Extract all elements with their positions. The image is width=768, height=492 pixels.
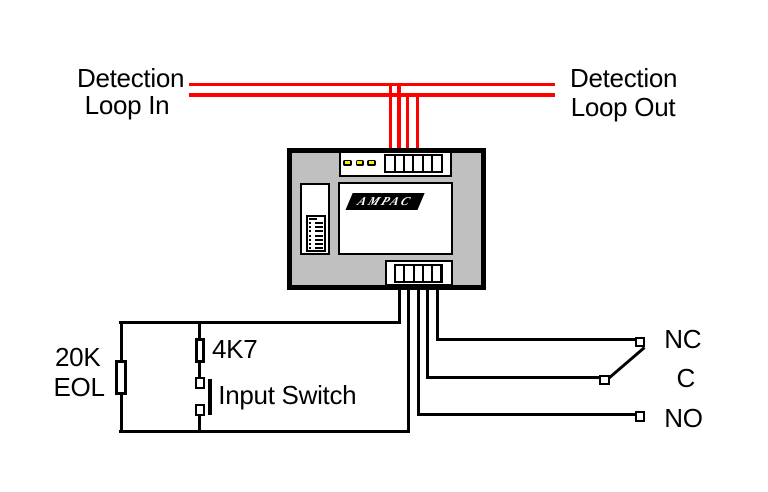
wire loop vertical 2 (red): [397, 83, 400, 148]
label EOL: [54, 374, 105, 400]
relay/DIP side panel: [300, 183, 330, 255]
wire A vertical (terminal 1 down): [398, 290, 401, 324]
wire loop horizontal bottom (red): [189, 93, 555, 96]
terminals panel (bottom): [385, 260, 453, 287]
wire loop horizontal top (red): [189, 83, 555, 86]
wire below switch: [198, 416, 201, 433]
resistor 4K7: [195, 338, 206, 363]
terminal block bottom (5 way): [394, 264, 443, 284]
wire E vertical (terminal 5 down): [436, 290, 439, 341]
wire between 4K7 and switch: [198, 363, 201, 377]
label Input Switch: [218, 382, 356, 408]
wire loop vertical 4 (red): [416, 93, 419, 148]
main label panel: [338, 182, 453, 256]
wire C horizontal (to NO): [417, 413, 635, 416]
input switch terminal top: [195, 377, 206, 389]
LED 2: [356, 160, 365, 166]
AMPAC logo parallelogram: [345, 193, 424, 210]
label 20K: [55, 344, 100, 370]
label Detection Loop In line1: [77, 65, 182, 91]
label NO: [664, 405, 702, 431]
wire left circuit vertical lower: [120, 395, 123, 433]
DIP switch block: [306, 215, 326, 252]
label C: [677, 365, 695, 391]
label Detection Loop Out line1: [570, 65, 674, 91]
wire left circuit vertical upper: [120, 321, 123, 360]
label NC: [664, 326, 701, 352]
relay terminal C: [599, 375, 610, 386]
wire E horizontal (to NC): [436, 338, 635, 341]
LED 1: [343, 160, 352, 166]
input switch terminal bottom: [195, 404, 206, 416]
LED 3: [367, 160, 376, 166]
detector unit U1 (AMPAC loop detector): [287, 148, 486, 290]
input switch blade: [208, 379, 212, 415]
relay terminal NC: [635, 337, 646, 348]
relay terminal NO: [635, 411, 646, 422]
wire loop vertical 1 (red): [389, 83, 392, 148]
label Detection Loop In line2: [77, 92, 177, 118]
wire loop vertical 3 (red): [406, 93, 409, 148]
terminal block top (6 way): [384, 154, 442, 173]
wire B vertical (terminal 2 down): [407, 290, 410, 433]
wire B horizontal (left circuit bottom): [119, 430, 410, 433]
label Detection Loop Out line2: [570, 94, 676, 120]
wire A horizontal (to left circuit top): [119, 321, 401, 324]
wire D vertical (terminal 4 down): [426, 290, 429, 379]
wire D horizontal (to C): [426, 376, 599, 379]
resistor 20K EOL: [115, 360, 128, 395]
wire branch vertical upper (to 4K7): [198, 322, 201, 338]
indicator panel (top): [339, 151, 453, 177]
label 4K7: [212, 336, 257, 362]
wire C vertical (terminal 3 down): [417, 290, 420, 416]
